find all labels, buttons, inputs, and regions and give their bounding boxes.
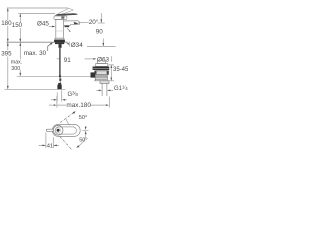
svg-text:Ø63: Ø63: [97, 56, 110, 63]
faucet base plate: [55, 38, 64, 40]
arrow 180 top: [7, 8, 9, 11]
label D34 with leader: [66, 43, 69, 45]
waste flange: [93, 67, 110, 71]
G3/8 nut: [58, 83, 61, 85]
svg-text:300: 300: [11, 66, 20, 72]
arrows at deck x20.3: [19, 42, 21, 46]
open lever ref lines: [58, 8, 74, 15]
waste locknut: [95, 71, 109, 75]
water stream arrow: [67, 28, 70, 31]
rod lower block: [59, 78, 61, 81]
35-45 dimension: [94, 65, 114, 81]
lower 50 deg arc: [78, 135, 86, 147]
ref line 180 top: [7, 7, 69, 9]
label G 1 1/4 with arrows: [96, 89, 99, 91]
arrow at upper dash end: [73, 111, 76, 114]
swivel dash line upper: [60, 113, 74, 123]
deck line: [6, 41, 68, 43]
hose junction: [59, 74, 61, 78]
axis tick right: [82, 129, 88, 131]
20 deg leader: [74, 22, 79, 25]
upper 50 deg arc: [66, 119, 70, 125]
svg-text:41: 41: [47, 143, 53, 149]
svg-text:20°: 20°: [89, 18, 99, 26]
svg-text:max. 30: max. 30: [24, 50, 47, 57]
G 3/8 dimension ticks and arrows: [57, 90, 62, 101]
svg-text:max.: max.: [11, 60, 22, 66]
waste threads: [95, 74, 107, 77]
cartridge cap: [54, 16, 67, 20]
svg-text:Ø45: Ø45: [37, 20, 49, 27]
svg-text:150: 150: [12, 22, 23, 29]
svg-text:Ø34: Ø34: [71, 42, 84, 49]
waste pop-up: D63 label + leaders: [85, 58, 94, 60]
plan view center dot: [56, 128, 61, 133]
label 91 with tick: [57, 58, 59, 60]
svg-text:90: 90: [96, 29, 104, 36]
arrows at deck x7.8: [7, 42, 9, 46]
plan view inner stadium: [55, 127, 76, 134]
dimension line 150/max300 vertical: [19, 14, 21, 76]
swivel dash line lower: [60, 137, 73, 151]
waste cap: [97, 61, 105, 64]
shank below deck: [55, 42, 64, 44]
plan view outer stadium: [52, 124, 80, 136]
svg-text:35-45: 35-45: [113, 67, 129, 73]
spout: [64, 21, 80, 26]
max180 dimension: [57, 96, 109, 107]
svg-text:395: 395: [1, 51, 12, 58]
svg-text:180: 180: [1, 20, 12, 27]
ref line 150 top: [18, 13, 55, 15]
svg-text:G11⁄4: G11⁄4: [114, 84, 128, 92]
threaded rod: [59, 48, 60, 76]
svg-text:91: 91: [64, 57, 72, 64]
svg-text:50°: 50°: [79, 137, 87, 143]
41 dimension: [46, 133, 53, 149]
90 dim bottom arrow: [102, 39, 104, 46]
tail pipe collar: [100, 81, 109, 84]
lever closed dark: [55, 13, 78, 16]
plan view lever: [46, 129, 53, 131]
arrow max300 bottom: [19, 73, 21, 76]
aerator: [65, 26, 70, 28]
90 dim top arrow + tick: [100, 13, 102, 23]
svg-text:50°: 50°: [79, 115, 87, 121]
plan view body circle: [53, 125, 63, 135]
side fitting: [91, 72, 96, 77]
svg-text:max.180: max.180: [66, 102, 91, 109]
arrow 150 top: [19, 14, 21, 17]
395 bottom reference line: [5, 88, 66, 90]
basin rim line right: [87, 45, 116, 47]
arrow 395 bottom: [7, 86, 9, 89]
waste striped block: [95, 78, 107, 81]
tail pipe: [102, 83, 107, 96]
dimension line 180/395 vertical: [7, 8, 9, 89]
hose reference line: [17, 75, 96, 77]
faucet body: [56, 20, 64, 39]
